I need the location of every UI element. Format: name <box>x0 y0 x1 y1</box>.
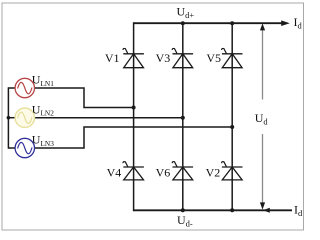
thyristor V1 <box>123 48 144 67</box>
node: top bus / column 2 <box>181 21 185 25</box>
Ud measurement arrow (gray, double headed, broken by label) <box>262 28 264 100</box>
node: top bus / column 3 <box>230 21 234 25</box>
node: bottom bus / column 3 <box>230 208 234 212</box>
arrowhead Id bottom (pointing left) <box>263 208 270 213</box>
svg-text:V6: V6 <box>156 165 171 179</box>
wire: top DC bus <box>134 22 283 24</box>
AC source ULN1 (red) <box>15 78 34 97</box>
wire: phase 2 to column 2 <box>35 117 183 119</box>
wire: column 3 (V5/V2 leg) <box>231 23 233 210</box>
svg-text:V1: V1 <box>105 51 120 65</box>
wire: neutral stub 2 <box>8 117 15 119</box>
thyristor V6 <box>172 162 193 180</box>
node: phase3 / column 3 <box>230 125 234 129</box>
thyristor V5 <box>222 48 243 67</box>
thyristor V4 <box>123 162 144 180</box>
wire: neutral stub 3 <box>8 147 15 149</box>
node: bottom bus / column 2 <box>181 208 185 212</box>
thyristor V2 <box>222 162 243 180</box>
AC source ULN3 (blue) <box>15 138 34 157</box>
node: phase2 / column 2 <box>181 116 185 120</box>
svg-text:V4: V4 <box>107 165 122 179</box>
wire: column 1 (V1/V4 leg) <box>133 22 135 211</box>
svg-text:V2: V2 <box>206 165 221 179</box>
wire: neutral vertical <box>7 87 9 148</box>
wire: phase 1 to column 1 <box>35 88 134 108</box>
svg-text:V3: V3 <box>156 51 171 65</box>
wire: neutral stub 1 <box>8 87 15 89</box>
wire: phase 3 to column 3 <box>35 127 233 148</box>
thyristor V3 <box>172 48 193 67</box>
svg-text:V5: V5 <box>206 51 221 65</box>
node: neutral junction <box>7 116 11 120</box>
arrowhead Id top (right) <box>281 20 290 26</box>
wire: column 2 (V3/V6 leg) <box>182 23 184 210</box>
AC source ULN2 (yellow) <box>15 108 34 127</box>
node: phase1 / column 1 <box>132 106 136 110</box>
wire: bottom DC bus <box>134 209 292 211</box>
